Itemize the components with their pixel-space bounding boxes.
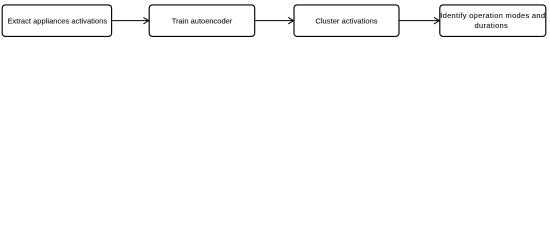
box B4: Identify operation modes and durations [440, 5, 546, 37]
svg-text:Extract appliances activations: Extract appliances activations [7, 16, 107, 25]
wire arrow 2 [255, 17, 293, 24]
wire arrow 1 [112, 17, 149, 24]
svg-text:Cluster activations: Cluster activations [315, 16, 377, 25]
wire arrow 3 [400, 17, 440, 24]
box B2: Train autoencoder [149, 5, 255, 37]
svg-text:Train autoencoder: Train autoencoder [172, 16, 233, 25]
box B3: Cluster activations [294, 5, 399, 37]
svg-text:durations: durations [475, 21, 509, 30]
svg-text:Identify operation modes and: Identify operation modes and [440, 11, 545, 20]
box B1: Extract appliances activations [2, 5, 111, 37]
